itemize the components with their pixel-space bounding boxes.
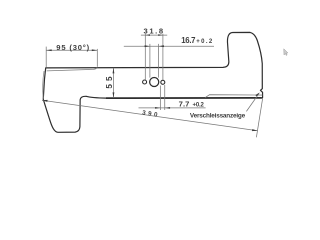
right small hole [161, 80, 165, 84]
left bevel line (cutting edge) [47, 68, 98, 71]
mouse cursor glyph [284, 49, 288, 56]
svg-text:+0.2: +0.2 [193, 102, 205, 108]
dim 55 line with arrows [112, 68, 114, 98]
dim 7.7: extension lines [159, 86, 161, 111]
dim 16.7 arrows (outside, pointing inward) [145, 45, 150, 47]
svg-text:16.7: 16.7 [181, 36, 195, 45]
dim 390 arrows [42, 100, 48, 102]
dim 390 line [42, 100, 258, 130]
dim 16.7 line [124, 45, 214, 47]
bottom edge emphasis [106, 97, 262, 99]
left wing inner bend line [43, 71, 44, 99]
dim 95 arrows [46, 49, 52, 51]
dim 16.7: extension lines [149, 44, 151, 78]
wear indicator leader line [246, 93, 259, 111]
blade outline [43, 32, 262, 132]
svg-text:7.7: 7.7 [179, 99, 190, 108]
dim 7.7 line [139, 107, 206, 109]
svg-text:95 (30°): 95 (30°) [56, 43, 89, 52]
right bevel / wear line [205, 95, 262, 98]
svg-text:Verschleissanzeige: Verschleissanzeige [190, 112, 246, 119]
dim 95: extension lines [45, 47, 47, 68]
left small hole [143, 80, 147, 84]
dim 95 line [46, 49, 97, 51]
dim 390: extension line at right tip [256, 99, 262, 138]
dim 31.8 line [141, 34, 167, 36]
dim 31.8 arrows [145, 34, 150, 36]
dim 7.7 arrows (outside, pointing inward) [155, 107, 160, 109]
svg-text:31.8: 31.8 [144, 27, 164, 36]
center hole [150, 77, 159, 86]
dim 31.8: extension lines [144, 34, 146, 80]
